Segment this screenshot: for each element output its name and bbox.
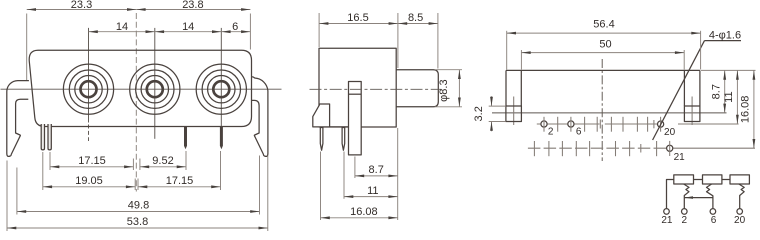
- dimension 11 (right view): [736, 70, 738, 124]
- left square mounting hole: [506, 106, 522, 122]
- dimension 8.7 (side): [354, 157, 356, 179]
- left mounting bracket: [7, 81, 29, 157]
- svg-text:20: 20: [664, 127, 676, 138]
- svg-text:φ8.3: φ8.3: [438, 79, 450, 101]
- svg-text:11: 11: [367, 185, 378, 197]
- right mounting bracket: [252, 77, 268, 157]
- svg-text:56.4: 56.4: [593, 19, 614, 31]
- jack1 vertical centerline: [88, 28, 90, 123]
- dimension 6: [221, 31, 250, 33]
- outline pin a: [41, 124, 44, 150]
- mini schematic box2: [703, 175, 722, 184]
- hole 20: [658, 121, 664, 127]
- bar bottom line: [492, 112, 727, 114]
- pin row 1 line: [537, 123, 600, 125]
- svg-text:6: 6: [232, 21, 238, 33]
- dimension 8.7 (right view): [724, 70, 726, 113]
- dimension 17.15 row2: [137, 179, 139, 191]
- dimension 14 (jack2-jack3): [155, 31, 222, 33]
- svg-text:11: 11: [723, 91, 735, 102]
- dimension 50: [520, 50, 522, 70]
- dimension 56.4: [506, 31, 508, 70]
- svg-text:16.08: 16.08: [350, 206, 378, 218]
- dimension 17.15 row1: [49, 152, 51, 170]
- wire to pin 21: [667, 180, 674, 209]
- hole 2: [541, 121, 547, 127]
- dark pin below jack3: [220, 127, 223, 149]
- connector body outline: [29, 50, 251, 126]
- bar end verticals: [505, 70, 507, 106]
- svg-text:50: 50: [599, 39, 611, 51]
- jack1 circles: [63, 64, 113, 114]
- needle pin A: [320, 128, 323, 151]
- svg-text:19.05: 19.05: [75, 175, 103, 187]
- dimension 23.3: [26, 14, 28, 81]
- dimension 3.2: [489, 105, 506, 107]
- pin 20 circle: [737, 209, 743, 215]
- dimension 19.05: [42, 152, 44, 190]
- svg-text:14: 14: [116, 21, 128, 33]
- dashed mid extension line between jacks: [135, 13, 137, 192]
- arrow link between pin2 and pin6 risers: [684, 197, 713, 199]
- svg-text:17.15: 17.15: [78, 155, 106, 167]
- svg-text:53.8: 53.8: [127, 216, 148, 228]
- svg-text:16.08: 16.08: [740, 96, 752, 124]
- right square centerline: [691, 97, 693, 126]
- svg-text:21: 21: [674, 152, 686, 163]
- svg-text:21: 21: [661, 215, 673, 226]
- dimension 23.8: [249, 14, 251, 50]
- right square mounting hole: [684, 106, 700, 122]
- vertical dash-dot centerline: [601, 59, 603, 161]
- svg-text:4-φ1.6: 4-φ1.6: [709, 29, 741, 41]
- horizontal dash-dot centerline: [310, 88, 442, 90]
- dimension 8.5: [437, 13, 439, 69]
- switch squiggle 3: [739, 184, 744, 209]
- svg-text:6: 6: [711, 215, 717, 226]
- switch squiggle 2: [707, 184, 713, 209]
- left square centerline: [513, 97, 515, 126]
- dimension 11 (side): [343, 152, 345, 199]
- mounting ear profile: [313, 104, 330, 127]
- jack2 vertical centerline: [154, 28, 156, 139]
- leader 4-φ1.6: [705, 40, 742, 42]
- svg-text:8.7: 8.7: [710, 84, 722, 99]
- right-side extension top line: [701, 69, 756, 71]
- svg-text:9.52: 9.52: [152, 155, 173, 167]
- dimension 16.5: [318, 13, 320, 47]
- body bar top edge (thick): [506, 69, 700, 71]
- horizontal centerline: [1, 88, 282, 90]
- dimension 16.08 (right view): [753, 70, 755, 148]
- svg-text:17.15: 17.15: [166, 175, 194, 187]
- dimension φ8.3: [435, 69, 463, 71]
- row2 tick marks: [534, 141, 656, 156]
- dimension 16.08 (side): [320, 152, 322, 221]
- dimension 14 (jack1-jack2): [89, 31, 155, 33]
- center tab: [349, 82, 362, 155]
- switch squiggle 1: [684, 184, 689, 209]
- needle pin B: [342, 128, 345, 151]
- svg-text:49.8: 49.8: [128, 200, 149, 212]
- outline pin b: [48, 124, 51, 150]
- hole 21: [667, 145, 673, 151]
- tab mid line: [349, 93, 362, 95]
- svg-text:23.8: 23.8: [182, 0, 203, 11]
- body rectangle: [319, 48, 396, 127]
- pin 21 circle: [664, 209, 670, 215]
- svg-text:6: 6: [576, 126, 582, 137]
- svg-text:16.5: 16.5: [347, 12, 368, 24]
- pin 2 circle: [682, 209, 688, 215]
- dimension 9.52: [139, 159, 141, 171]
- schematic links: [694, 179, 703, 181]
- jack3 circles: [196, 64, 246, 114]
- row1 tick marks: [558, 117, 654, 132]
- pin 6 circle: [710, 209, 716, 215]
- svg-text:20: 20: [734, 215, 746, 226]
- hole 6: [568, 121, 574, 127]
- jack2 circles: [130, 64, 180, 114]
- svg-text:8.5: 8.5: [408, 12, 423, 24]
- body bottom redraw: [329, 126, 349, 128]
- svg-text:23.3: 23.3: [71, 0, 92, 11]
- jack3 vertical centerline: [220, 28, 222, 127]
- mini schematic box1: [674, 175, 694, 184]
- mini schematic box3: [730, 175, 749, 184]
- pin row 2 line: [528, 147, 666, 149]
- svg-text:2: 2: [682, 215, 688, 226]
- svg-text:14: 14: [182, 21, 194, 33]
- svg-text:3.2: 3.2: [473, 106, 485, 121]
- dimension 53.8: [6, 161, 8, 232]
- svg-text:2: 2: [548, 126, 554, 137]
- dark pin below jack2 area: [184, 127, 187, 149]
- svg-text:8.7: 8.7: [369, 164, 384, 176]
- dimension 49.8: [16, 168, 18, 215]
- barrel (RCA plug): [396, 70, 438, 107]
